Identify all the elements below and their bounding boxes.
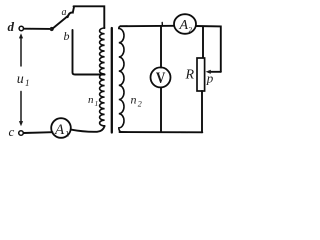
svg-text:p: p bbox=[206, 71, 214, 86]
ammeter A2 circle bbox=[174, 14, 196, 34]
wire top (a to primary top) bbox=[74, 6, 105, 28]
primary winding n1 bbox=[100, 28, 105, 126]
node c terminal bbox=[19, 131, 24, 136]
svg-text:a: a bbox=[62, 7, 67, 18]
switch pivot junction dot bbox=[50, 27, 54, 31]
svg-text:A: A bbox=[179, 18, 189, 33]
u1 arrow upper shaft bbox=[20, 38, 22, 67]
wire V branch upper bbox=[160, 26, 162, 68]
contact a hook bbox=[68, 7, 74, 17]
svg-text:2: 2 bbox=[138, 100, 142, 109]
svg-text:d: d bbox=[8, 19, 15, 34]
wire c to A1 bbox=[24, 131, 53, 134]
junction stub at V branch bbox=[161, 23, 163, 27]
wire d to switch pivot bbox=[24, 28, 50, 30]
svg-text:b: b bbox=[64, 29, 70, 43]
wire secondary top to A2 bbox=[121, 25, 175, 27]
rheostat R top lead bbox=[202, 26, 204, 58]
u1 arrow lower shaft bbox=[20, 92, 22, 122]
svg-text:1: 1 bbox=[95, 99, 99, 108]
rheostat R bottom lead bbox=[201, 91, 203, 132]
secondary bottom wire bbox=[120, 131, 203, 133]
transformer core bbox=[111, 28, 113, 133]
contact b wire to tap bbox=[73, 30, 105, 75]
slider arrow wire bbox=[209, 71, 221, 73]
wire V branch lower bbox=[160, 87, 162, 132]
svg-text:V: V bbox=[156, 70, 166, 87]
wire A2 to right corner bbox=[196, 26, 221, 72]
svg-text:u: u bbox=[17, 72, 24, 87]
voltage arrow u1 up head bbox=[19, 33, 23, 38]
node d terminal bbox=[19, 26, 23, 30]
svg-text:c: c bbox=[9, 124, 15, 139]
rheostat R body bbox=[197, 58, 205, 91]
svg-text:n: n bbox=[88, 94, 94, 106]
voltage arrow u1 down head bbox=[19, 121, 23, 126]
svg-text:1: 1 bbox=[65, 130, 69, 139]
svg-text:A: A bbox=[54, 122, 65, 138]
svg-text:n: n bbox=[131, 93, 137, 107]
svg-text:R: R bbox=[185, 68, 195, 83]
voltmeter V circle bbox=[151, 67, 171, 87]
secondary winding n2 bbox=[119, 26, 124, 132]
switch blade bbox=[53, 16, 69, 29]
svg-text:1: 1 bbox=[25, 78, 30, 88]
slider arrowhead p bbox=[206, 70, 211, 74]
ammeter A1 circle bbox=[51, 118, 71, 138]
wire A1 to primary bottom bbox=[71, 126, 105, 132]
svg-text:2: 2 bbox=[189, 25, 193, 34]
